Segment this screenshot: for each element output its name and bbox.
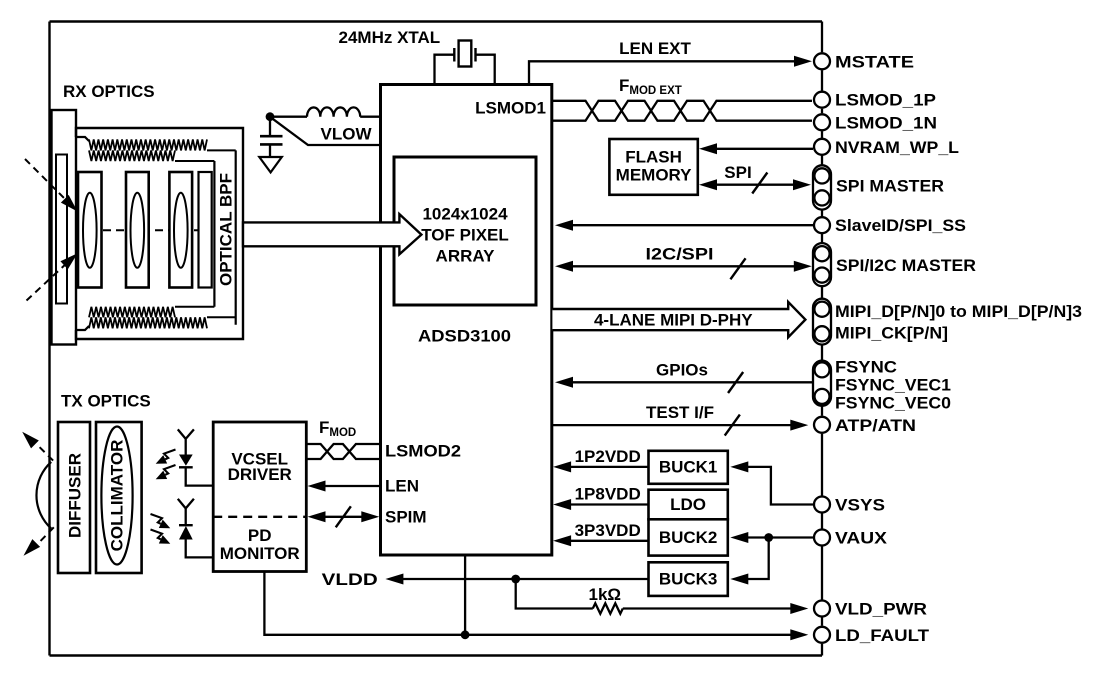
wire TEST I/F (552, 424, 794, 426)
wire I2C/SPI bus (569, 265, 798, 267)
pin group MIPI (813, 299, 831, 345)
diffuser block (58, 422, 90, 573)
svg-text:LSMOD1: LSMOD1 (475, 99, 546, 118)
svg-text:1kΩ: 1kΩ (589, 585, 622, 604)
crystal body Y1 (459, 41, 472, 67)
pin SlaveID/SPI_SS (814, 217, 830, 233)
lens element L2 (126, 172, 149, 288)
VCSEL diode D1 antenna (178, 429, 194, 454)
wire inductor to ADSD3100 (360, 116, 380, 118)
pin LSMOD_1P (814, 92, 830, 108)
svg-text:PD: PD (248, 526, 272, 545)
wire 3P3VDD (567, 540, 649, 542)
wire D1 to VCSEL driver (186, 467, 214, 485)
photon arrows into D2 (151, 514, 163, 524)
svg-text:NVRAM_WP_L: NVRAM_WP_L (835, 138, 959, 157)
RX optics mount plate (52, 110, 77, 345)
thread top row1 tail (207, 149, 236, 151)
svg-text:SPI MASTER: SPI MASTER (836, 176, 944, 195)
svg-text:FLASH: FLASH (625, 148, 682, 167)
optical band-pass filter plate (199, 172, 212, 288)
svg-text:MSTATE: MSTATE (835, 52, 914, 71)
svg-text:DRIVER: DRIVER (228, 465, 292, 484)
svg-text:VLD_PWR: VLD_PWR (835, 600, 927, 619)
svg-text:COLLIMATOR: COLLIMATOR (108, 440, 127, 552)
thread zigzag top row2 (89, 150, 175, 161)
svg-text:TOF PIXEL: TOF PIXEL (421, 225, 509, 244)
emitted light dashed arrow lower (37, 527, 54, 544)
svg-text:MIPI_CK[P/N]: MIPI_CK[P/N] (835, 324, 948, 343)
svg-text:TX OPTICS: TX OPTICS (61, 391, 151, 410)
wire PD monitor to LD_FAULT (264, 572, 794, 635)
svg-text:DIFFUSER: DIFFUSER (66, 453, 85, 538)
incoming light dashed arrow upper (25, 159, 68, 202)
outer system boundary box (50, 20, 823, 22)
svg-text:LD_FAULT: LD_FAULT (835, 626, 930, 645)
svg-text:MEMORY: MEMORY (616, 166, 693, 185)
svg-text:LEN EXT: LEN EXT (619, 39, 691, 58)
thread zigzag bottom row2 (89, 317, 207, 328)
optical axis dashed (90, 229, 205, 231)
flash memory block (609, 139, 697, 195)
photodiode D2 antenna (178, 499, 194, 525)
svg-text:MIPI_D[P/N]0 to MIPI_D[P/N]3: MIPI_D[P/N]0 to MIPI_D[P/N]3 (835, 302, 1082, 321)
thread zigzag top row1 (89, 139, 207, 150)
RX optics sensor plate (56, 155, 67, 304)
emitted light dashed arrow upper (37, 445, 53, 461)
svg-text:FSYNC_VEC0: FSYNC_VEC0 (835, 394, 951, 413)
svg-text:LEN: LEN (385, 477, 419, 496)
svg-text:FSYNC: FSYNC (835, 358, 897, 377)
svg-text:4-LANE MIPI D-PHY: 4-LANE MIPI D-PHY (594, 310, 753, 329)
SPIM bus slash (336, 506, 351, 527)
crystal left leg wire (435, 55, 455, 85)
svg-text:VAUX: VAUX (835, 529, 888, 548)
capacitor C1 wire top (269, 117, 271, 136)
VCSEL diode D1 (179, 455, 193, 466)
thread bottom row1 tail (175, 306, 214, 308)
pin LSMOD_1N (814, 114, 830, 130)
VCSEL/PD divider dashed (213, 516, 306, 518)
wire VLDD from BUCK3 (399, 578, 648, 580)
wire SPIM bus (320, 516, 367, 518)
collimator block (96, 422, 142, 573)
pin group FSYNC (813, 361, 831, 406)
twisted pair wires LSMOD1 to LSMOD_1P/1N (552, 101, 812, 121)
photodiode D2 (179, 524, 193, 526)
svg-text:GPIOs: GPIOs (656, 361, 708, 380)
thread zigzag bottom row1 (89, 307, 175, 318)
svg-text:1P2VDD: 1P2VDD (575, 447, 641, 466)
thread bottom row2 tail (207, 316, 236, 318)
VCSEL driver / PD monitor block (213, 422, 306, 572)
svg-text:1P8VDD: 1P8VDD (575, 485, 641, 504)
light path big arrow into pixel array (243, 214, 421, 254)
ground symbol (259, 157, 282, 172)
wire VSYS to BUCK1 (744, 467, 813, 505)
wire SlaveID/SPI_SS (569, 224, 813, 226)
RX housing bottom flange step (76, 326, 89, 330)
regulator BUCK2 (649, 519, 728, 555)
SPI bus slash (752, 173, 767, 194)
crystal plate left (453, 48, 455, 62)
svg-text:BUCK3: BUCK3 (659, 570, 718, 589)
4-lane MIPI D-PHY big arrow (552, 302, 805, 337)
svg-text:ARRAY: ARRAY (436, 247, 496, 266)
lens element L3 (169, 172, 192, 288)
svg-text:SlaveID/SPI_SS: SlaveID/SPI_SS (835, 216, 966, 235)
lens element L1 (78, 172, 102, 288)
wire GPIOs (569, 381, 813, 383)
RX housing top flange step (76, 137, 89, 141)
svg-text:ADSD3100: ADSD3100 (418, 327, 511, 346)
svg-text:24MHz XTAL: 24MHz XTAL (339, 28, 441, 47)
svg-text:VLOW: VLOW (321, 125, 373, 144)
TX exit lens arc (36, 462, 51, 529)
capacitor C1 wire bottom (269, 144, 271, 157)
svg-text:VSYS: VSYS (835, 496, 885, 515)
svg-text:LSMOD_1P: LSMOD_1P (835, 91, 936, 110)
svg-text:I2C/SPI: I2C/SPI (646, 245, 714, 264)
pin group SPI/I2C MASTER (813, 243, 831, 286)
junction node VAUX branch (764, 533, 773, 542)
wire 1P8VDD (567, 503, 649, 505)
wire 1P2VDD (567, 466, 649, 468)
svg-text:BUCK1: BUCK1 (659, 458, 718, 477)
svg-text:LDO: LDO (670, 495, 706, 514)
pin VSYS (814, 497, 830, 513)
ADSD3100 block (381, 85, 552, 556)
svg-text:LSMOD2: LSMOD2 (385, 442, 461, 461)
pin MSTATE (814, 53, 830, 69)
resistor 1kOhm (593, 603, 623, 613)
GPIOs bus slash (728, 372, 743, 393)
thread top row2 tail (175, 160, 214, 162)
wire VAUX to BUCK2 (744, 536, 813, 538)
wire resistor to VLD_PWR (623, 607, 794, 609)
incoming light dashed arrow lower (27, 262, 69, 301)
pin NVRAM_WP_L (814, 139, 830, 155)
capacitor C1 (260, 135, 283, 138)
svg-text:VLDD: VLDD (322, 570, 378, 589)
regulator LDO (649, 490, 728, 520)
twisted pair wires FMOD VCSEL to LSMOD2 (306, 444, 380, 459)
wire SPI bus flash to SPI MASTER (713, 184, 798, 186)
svg-text:TEST I/F: TEST I/F (646, 403, 714, 422)
pin VLD_PWR (814, 601, 830, 617)
1024x1024 TOF pixel array block (394, 157, 536, 305)
svg-text:SPI: SPI (724, 163, 751, 182)
wire VLOW node to inductor (270, 116, 307, 118)
regulator BUCK3 (649, 562, 728, 596)
wire VLDD to 1k resistor (516, 579, 593, 609)
I2C/SPI bus slash (730, 258, 745, 279)
junction node VLDD/1k (511, 575, 520, 584)
crystal plate right (474, 48, 476, 62)
regulator BUCK1 (649, 451, 728, 484)
photon arrows from D1 (164, 450, 176, 460)
svg-text:RX OPTICS: RX OPTICS (63, 82, 155, 101)
RX lens barrel wall (213, 161, 215, 307)
svg-text:MONITOR: MONITOR (220, 544, 300, 563)
svg-text:ATP/ATN: ATP/ATN (835, 416, 916, 435)
wire NVRAM_WP_L to flash (713, 148, 813, 150)
svg-text:FSYNC_VEC1: FSYNC_VEC1 (835, 376, 951, 395)
svg-text:SPI/I2C MASTER: SPI/I2C MASTER (836, 256, 976, 275)
TEST I/F bus slash (725, 415, 740, 436)
RX lens housing outline (76, 128, 243, 339)
wire LEN (320, 485, 381, 487)
junction node LD_FAULT (461, 630, 470, 639)
pin LD_FAULT (814, 627, 830, 643)
crystal right leg wire (476, 55, 495, 85)
pin VAUX (814, 530, 830, 546)
junction node VLOW (266, 112, 275, 121)
RX housing inner wall right (235, 150, 237, 324)
svg-text:1024x1024: 1024x1024 (422, 204, 508, 223)
VLOW lower rail diagonal (271, 118, 381, 145)
svg-text:SPIM: SPIM (385, 507, 427, 526)
wire D2 to PD monitor (186, 540, 214, 558)
inductor L VLOW (307, 107, 360, 116)
wire LEN EXT (529, 61, 806, 84)
svg-text:OPTICAL BPF: OPTICAL BPF (217, 173, 236, 286)
pin group SPI MASTER (813, 165, 831, 209)
right edge pin column wire segments (821, 22, 823, 53)
pin ATP/ATN (814, 417, 830, 433)
wire VAUX branch to BUCK3 (744, 538, 769, 580)
svg-text:LSMOD_1N: LSMOD_1N (835, 113, 937, 132)
svg-text:BUCK2: BUCK2 (659, 528, 718, 547)
svg-text:3P3VDD: 3P3VDD (575, 521, 641, 540)
wire ADSD3100 bottom to LD_FAULT (464, 555, 466, 635)
